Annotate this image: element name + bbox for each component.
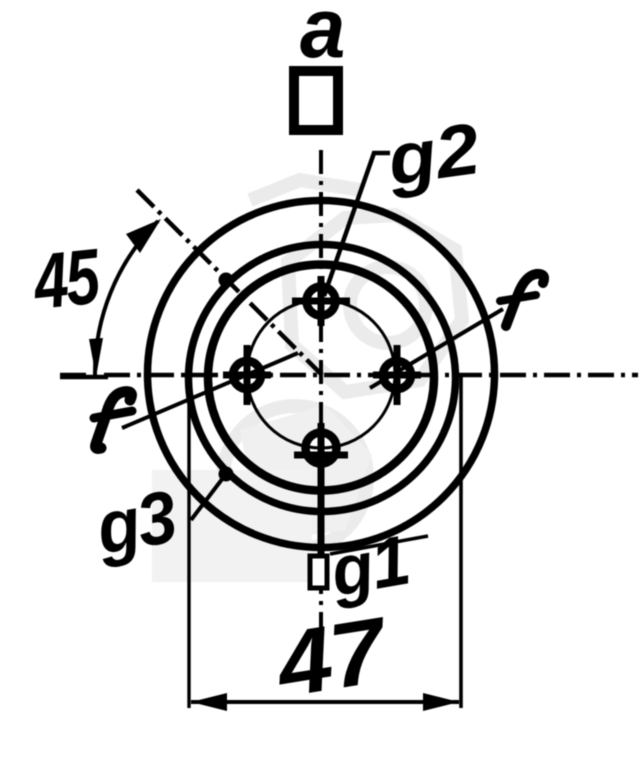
hole f left [223,345,271,405]
outer circle [148,201,495,548]
svg-text:47: 47 [268,598,397,717]
leader f left [122,353,298,428]
dimension line 47 [191,700,459,704]
inner circle [208,265,434,491]
pitch circle [247,300,395,448]
horizontal centerline [60,373,638,378]
45-degree diagonal centerline [137,190,322,375]
hole f right [373,345,421,405]
hole g2 top [292,276,350,326]
angle dimension arc 45 [95,221,158,376]
label f right [500,274,544,326]
arc arrow top [126,219,161,253]
svg-text:g1: g1 [324,521,415,612]
vertical centerline [319,150,323,652]
svg-text:g3: g3 [90,475,183,570]
leader f right [370,309,503,388]
label f left [94,392,132,449]
dim arrow right [423,693,459,711]
extension line right [459,376,463,708]
node dot on flange circle lower-left (g3) [219,467,234,482]
node dot on flange circle upper-left [219,273,234,288]
terminal pin g1 [318,458,325,557]
rectangle a [294,71,338,130]
svg-text:g2: g2 [382,107,485,200]
arc arrow bottom [89,338,103,377]
leader g3 [191,474,226,520]
hole g1 bottom [294,423,348,473]
extension line left [187,376,190,708]
flange circle d47 [189,245,456,512]
svg-text:a: a [300,0,345,75]
leader g1 [330,536,428,554]
dim arrow left [191,693,227,711]
leader g2 [324,153,390,296]
svg-text:45: 45 [28,232,105,326]
